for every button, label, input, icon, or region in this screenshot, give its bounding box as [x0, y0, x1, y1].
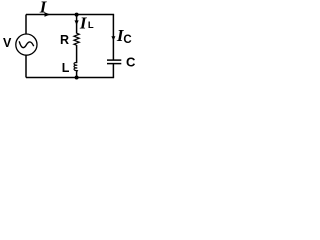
- arrow IC on right branch: [111, 36, 115, 41]
- svg-text:C: C: [123, 34, 131, 46]
- wire middle-mid: [76, 45, 78, 63]
- wire right-bottom: [112, 64, 114, 78]
- wire top: [26, 14, 114, 16]
- svg-text:R: R: [60, 33, 69, 47]
- capacitor C top plate: [107, 59, 121, 61]
- svg-text:C: C: [126, 55, 136, 70]
- svg-text:L: L: [88, 20, 94, 31]
- inductor L coil: [74, 63, 77, 72]
- svg-text:L: L: [62, 61, 70, 75]
- capacitor C bottom plate: [107, 63, 121, 65]
- wire bottom: [26, 77, 114, 79]
- svg-text:V: V: [3, 36, 12, 50]
- ac source V1 circle: [16, 34, 37, 55]
- wire left-bottom: [25, 55, 27, 77]
- wire right-top: [112, 15, 114, 61]
- arrow I on top wire: [45, 12, 51, 17]
- node top junction dot: [75, 13, 79, 17]
- ac source V1 sine: [19, 41, 34, 47]
- wire middle-top: [76, 15, 78, 34]
- wire left-top: [25, 15, 27, 35]
- node bottom junction dot: [75, 76, 79, 80]
- wire middle-bottom: [76, 72, 78, 78]
- resistor R zigzag: [74, 33, 79, 45]
- arrow IL on middle branch: [75, 20, 79, 25]
